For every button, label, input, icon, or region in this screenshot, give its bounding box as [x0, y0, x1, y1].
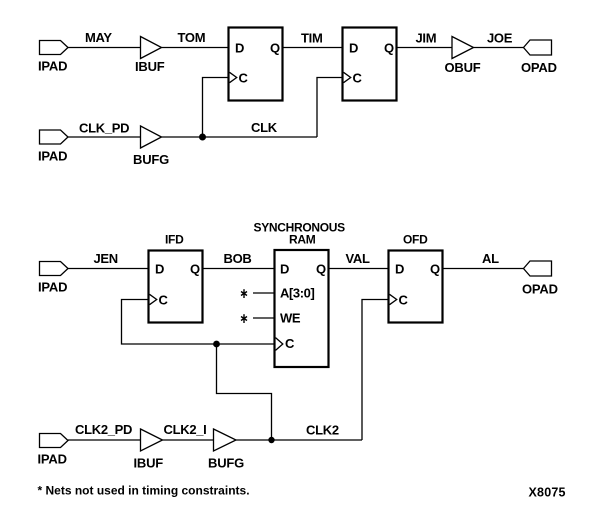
RAM A[3:0] stub wire: [253, 292, 275, 294]
wire IFD clock feed: [122, 300, 275, 345]
pad IPAD (net JEN): [40, 262, 69, 276]
flip-flop IFD clock wedge: [150, 294, 157, 304]
svg-text:BOB: BOB: [224, 251, 252, 266]
wire jog from RAM clock junction down to CLK2: [217, 344, 272, 440]
svg-text:IPAD: IPAD: [38, 452, 67, 467]
wire CLK horizontal: [162, 136, 318, 138]
svg-text:C: C: [159, 292, 169, 307]
svg-text:WE: WE: [280, 310, 301, 325]
flip-flop FF1 body: [229, 28, 283, 101]
wire CLK2 horizontal: [236, 439, 362, 441]
buffer BUFG (bottom): [214, 429, 237, 451]
svg-text:OPAD: OPAD: [521, 60, 557, 75]
svg-text:OPAD: OPAD: [522, 282, 558, 297]
svg-text:C: C: [285, 336, 295, 351]
flip-flop FF2 clock wedge: [344, 72, 351, 82]
buffer BUFG (top clock): [141, 126, 162, 148]
svg-text:MAY: MAY: [85, 30, 112, 45]
svg-text:IBUF: IBUF: [135, 59, 165, 74]
RAM WE stub wire: [253, 317, 275, 319]
svg-text:CLK2: CLK2: [306, 423, 339, 438]
svg-text:IPAD: IPAD: [38, 59, 67, 74]
pad IPAD (top input, net MAY): [40, 41, 69, 55]
svg-text:Q: Q: [270, 40, 280, 55]
RAM body: [275, 250, 329, 367]
svg-text:RAM: RAM: [289, 233, 316, 247]
svg-text:IFD: IFD: [165, 233, 184, 247]
svg-text:BUFG: BUFG: [133, 152, 169, 167]
svg-text:IPAD: IPAD: [38, 280, 67, 295]
junction dot on CLK2: [268, 437, 274, 443]
svg-text:Q: Q: [384, 40, 394, 55]
svg-text:OBUF: OBUF: [445, 60, 481, 75]
svg-text:C: C: [399, 292, 409, 307]
buffer IBUF (bottom): [141, 429, 163, 451]
svg-text:JIM: JIM: [416, 30, 437, 45]
wire CLK_PD: [68, 136, 141, 138]
flip-flop FF2 body: [343, 28, 397, 101]
svg-text:VAL: VAL: [346, 251, 370, 266]
wire CLK2_PD: [68, 439, 141, 441]
svg-text:CLK_PD: CLK_PD: [79, 121, 129, 136]
svg-text:C: C: [239, 70, 249, 85]
svg-text:CLK2_PD: CLK2_PD: [75, 422, 132, 437]
pad IPAD (net CLK2_PD): [40, 434, 69, 448]
svg-text:Q: Q: [430, 261, 440, 276]
flip-flop IFD body: [149, 251, 203, 323]
svg-text:D: D: [395, 261, 404, 276]
svg-text:CLK: CLK: [251, 120, 278, 135]
wire JOE: [474, 47, 524, 49]
svg-text:A[3:0]: A[3:0]: [280, 285, 315, 300]
junction dot on RAM clock net: [213, 341, 220, 348]
wire TOM: [162, 47, 229, 49]
pad OPAD (net AL): [524, 261, 552, 276]
wire CLK branch to FF1 clock: [203, 78, 229, 138]
svg-text:JOE: JOE: [487, 30, 513, 45]
svg-text:D: D: [280, 261, 289, 276]
svg-text:BUFG: BUFG: [208, 455, 244, 470]
wire MAY: [68, 47, 141, 49]
wire VAL: [329, 268, 389, 270]
flip-flop FF1 clock wedge: [230, 72, 237, 82]
svg-text:IPAD: IPAD: [38, 149, 67, 164]
wire BOB: [203, 268, 275, 270]
wire CLK2 rise to OFD clock: [362, 300, 389, 441]
wire JEN: [68, 268, 149, 270]
svg-text:OFD: OFD: [403, 233, 428, 247]
svg-text:IBUF: IBUF: [134, 455, 164, 470]
buffer OBUF: [452, 37, 474, 59]
wire AL: [443, 268, 524, 270]
svg-text:Q: Q: [190, 261, 200, 276]
asterisk for A[3:0]: [241, 289, 247, 298]
svg-text:* Nets not used in timing cons: * Nets not used in timing constraints.: [38, 484, 250, 498]
wire JIM: [397, 47, 453, 49]
flip-flop OFD body: [389, 251, 443, 323]
svg-text:D: D: [235, 40, 244, 55]
pad OPAD (top output, net JOE): [524, 40, 552, 55]
wire CLK2_I: [163, 439, 214, 441]
svg-text:D: D: [349, 40, 358, 55]
svg-text:TOM: TOM: [178, 30, 206, 45]
RAM clock wedge: [276, 338, 283, 351]
flip-flop OFD clock wedge: [390, 294, 397, 304]
svg-text:Q: Q: [316, 261, 326, 276]
svg-text:X8075: X8075: [529, 486, 566, 500]
pad IPAD (net CLK_PD): [40, 130, 69, 144]
asterisk for WE: [241, 314, 247, 323]
svg-text:CLK2_I: CLK2_I: [164, 422, 207, 437]
wire CLK branch to FF2 clock: [317, 78, 343, 138]
svg-text:C: C: [353, 70, 363, 85]
wire TIM: [283, 47, 343, 49]
svg-text:D: D: [155, 261, 164, 276]
buffer IBUF (top): [141, 37, 162, 59]
junction dot on CLK: [199, 134, 206, 141]
svg-text:JEN: JEN: [94, 251, 118, 266]
svg-text:TIM: TIM: [301, 30, 322, 45]
svg-text:AL: AL: [482, 251, 499, 266]
